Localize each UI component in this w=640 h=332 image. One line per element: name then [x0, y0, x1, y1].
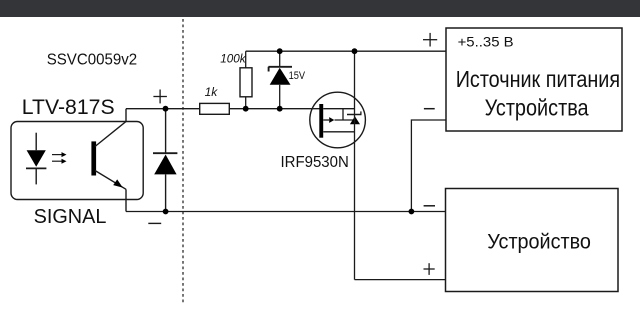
node: junction dot at - input	[163, 209, 169, 215]
transistor Q2 IRF9530N P-MOSFET	[310, 92, 366, 148]
wire: top supply rail	[246, 50, 446, 52]
LED D1 (inside optocoupler)	[26, 133, 46, 185]
svg-text:100k: 100k	[220, 52, 247, 65]
device box (Устройство)	[446, 189, 619, 292]
plus terminal mark (SIGNAL +)	[153, 90, 167, 104]
wire: 100k bottom lead	[245, 97, 247, 109]
minus terminal mark (SIGNAL -)	[148, 222, 161, 224]
wire: supply minus jog to bottom rail	[411, 120, 446, 212]
optocoupler U1 LTV-817S body	[11, 122, 143, 200]
resistor R1 1k	[200, 103, 230, 114]
svg-text:15V: 15V	[289, 70, 306, 82]
protection diode D2 across input	[153, 109, 177, 212]
svg-text:Устройства: Устройства	[485, 94, 589, 120]
node: junction dot 100k/gate rail	[243, 106, 249, 112]
node: junction dot at + input	[163, 106, 169, 112]
svg-text:Устройство: Устройство	[487, 229, 591, 253]
svg-text:1k: 1k	[205, 85, 219, 99]
wire: gate rail (opto collector to MOSFET gate)	[126, 108, 320, 110]
svg-text:Источник питания: Источник питания	[456, 66, 620, 92]
zener diode VD1 15V	[268, 51, 292, 108]
phototransistor Q1 (inside optocoupler)	[91, 109, 126, 212]
node: junction dot zener top	[277, 48, 283, 54]
svg-text:SSVC0059v2: SSVC0059v2	[47, 52, 138, 69]
node: junction dot top rail / MOSFET	[352, 48, 358, 54]
top status bar	[0, 0, 640, 17]
minus terminal mark (supply -)	[424, 108, 435, 110]
svg-text:IRF9530N: IRF9530N	[281, 154, 349, 171]
node: junction dot minus rail	[409, 209, 415, 215]
wire: 100k top lead	[245, 51, 247, 68]
plus terminal mark (supply +)	[423, 33, 437, 47]
minus terminal mark (device -)	[424, 205, 435, 207]
svg-text:+5..35 В: +5..35 В	[458, 34, 514, 50]
svg-text:LTV-817S: LTV-817S	[22, 95, 115, 119]
power source box (Источник питания Устройства)	[446, 28, 622, 131]
resistor R2 100k	[240, 68, 252, 97]
node: junction dot zener bottom	[277, 106, 283, 112]
wire: bottom signal rail	[126, 211, 446, 213]
dashed isolation boundary line	[182, 19, 184, 305]
plus terminal mark (device +)	[424, 263, 435, 275]
wire: MOSFET source/drain vertical (top rail to device + wire)	[354, 51, 356, 279]
wire: device + bottom wire	[355, 279, 447, 281]
light emission arrows	[52, 152, 67, 164]
svg-text:SIGNAL: SIGNAL	[34, 206, 107, 228]
